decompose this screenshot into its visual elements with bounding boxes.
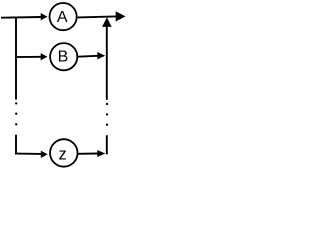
arrowhead z into collector <box>97 150 105 157</box>
node A circle <box>50 3 77 30</box>
wire B to collector <box>78 55 98 58</box>
svg-text:z: z <box>58 145 66 163</box>
arrowhead up into top wire <box>102 17 112 27</box>
wire right vertical upper <box>106 26 108 100</box>
arrowhead into node z <box>41 151 48 158</box>
dots left ellipsis <box>15 102 17 104</box>
wire top entry <box>1 16 41 19</box>
svg-text:B: B <box>58 49 69 66</box>
wire z to collector <box>78 153 98 155</box>
wire right vertical lower <box>106 135 108 154</box>
node B circle <box>50 43 77 70</box>
dots right ellipsis <box>106 103 108 105</box>
arrowhead B into collector <box>97 52 105 59</box>
wire left vertical upper <box>15 17 17 100</box>
arrowhead into node B <box>41 53 48 60</box>
arrowhead exit right <box>116 11 126 21</box>
wire left vertical lower <box>15 135 17 155</box>
arrowhead into node A <box>41 13 48 20</box>
wire branch B left <box>16 56 41 58</box>
wire A to exit <box>78 16 117 17</box>
svg-text:A: A <box>57 9 68 26</box>
wire branch z left <box>15 153 41 155</box>
node z circle <box>50 139 78 167</box>
